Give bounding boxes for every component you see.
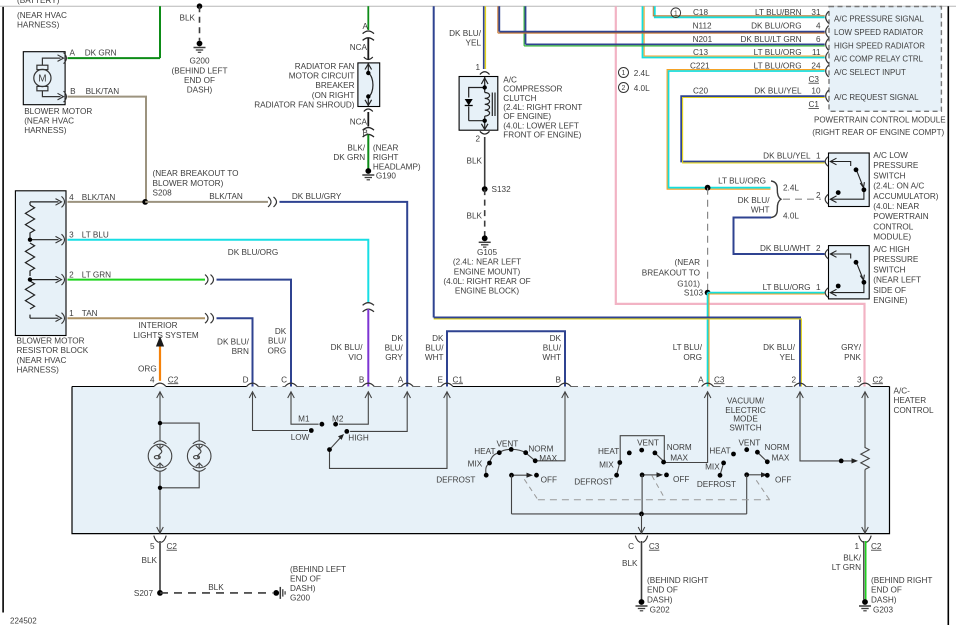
svg-text:SWITCH: SWITCH [873,265,905,274]
svg-text:WHT: WHT [542,353,561,362]
mode switch 3 OFF arm [747,474,763,476]
svg-text:SWITCH: SWITCH [873,171,905,180]
svg-text:G203: G203 [873,605,893,614]
svg-text:VENT: VENT [637,439,659,448]
svg-text:A/C: A/C [503,75,517,84]
svg-text:D: D [243,375,249,384]
svg-text:DK BLU/LT GRN: DK BLU/LT GRN [740,35,801,44]
svg-text:LIGHTS SYSTEM: LIGHTS SYSTEM [133,331,199,340]
wire DK BLU/BRN to heater pin D [217,318,253,386]
mode switch 2 OFF arm [642,474,658,476]
svg-text:CLUTCH: CLUTCH [503,94,536,103]
wire BLK/TAN pin4 to S208 [68,201,146,203]
wire LT GRN pin2 to connector [68,279,206,281]
splice dot at top of G200 dashed wire [197,3,203,9]
svg-text:C3: C3 [714,375,725,384]
svg-text:BLOWER MOTOR: BLOWER MOTOR [24,107,92,116]
svg-text:10: 10 [811,87,821,96]
wire DK BLU/YEL vertical to compressor clutch pin 1 [483,6,485,69]
svg-text:LT BLU/ORG: LT BLU/ORG [754,48,802,57]
svg-text:DASH): DASH) [187,86,213,95]
svg-text:DK GRN: DK GRN [85,49,117,58]
heater box top edge dashed segments [259,386,860,388]
svg-text:OFF: OFF [775,475,791,484]
wire DK BLU/GRY to heater pin A [280,202,408,387]
HP switch connector arc pin 2 [825,249,828,259]
HP switch connector arc pin 1 [825,288,828,298]
wire N201 DK BLU/LT GRN vertical (cut at top) [523,6,525,46]
svg-text:A: A [698,375,704,384]
svg-text:WHT: WHT [751,206,770,215]
resistor chain junction dots [28,238,32,242]
left page border [2,7,4,613]
svg-text:NORM: NORM [765,443,790,452]
svg-text:NORM: NORM [667,443,692,452]
svg-text:C2: C2 [873,375,884,384]
wire BLK dashed S207 to G200 [160,592,273,594]
wire C13 LT BLU/ORG vertical (cut at top) [643,6,825,57]
svg-text:(NEAR: (NEAR [373,144,399,153]
splice S208 [142,199,148,205]
svg-text:2: 2 [816,244,821,253]
svg-text:DASH): DASH) [290,584,316,593]
svg-text:DEFROST: DEFROST [436,475,475,484]
svg-text:DK BLU/: DK BLU/ [331,343,364,352]
svg-text:LT BLU/BRN: LT BLU/BRN [755,8,802,17]
svg-text:BRN: BRN [232,347,249,356]
circuit breaker element [365,64,373,107]
svg-text:3: 3 [69,231,74,240]
svg-text:VACUUM/: VACUUM/ [727,396,765,405]
svg-text:C20: C20 [693,87,708,96]
ground G202 [636,599,648,611]
mode switch 3 contacts [720,452,766,475]
svg-text:ACCUMULATOR): ACCUMULATOR) [873,192,938,201]
resistor chain (3 resistors) [25,202,58,318]
inline connector BLK/TAN to DK BLU/GRY [268,197,277,207]
svg-text:C1: C1 [453,375,464,384]
svg-text:2.4L: 2.4L [634,69,650,78]
svg-text:VENT: VENT [496,439,518,448]
junction dot on LT BLU/ORG at x=707.6 [705,185,711,191]
svg-text:END OF: END OF [290,574,321,583]
top crop rule [0,5,956,7]
svg-text:2: 2 [69,271,74,280]
wire LT BLU/ORG from S103 to HP switch pin 1 [708,292,825,294]
svg-text:RIGHT: RIGHT [373,153,398,162]
svg-text:1: 1 [674,10,678,17]
svg-text:DK BLU/WHT: DK BLU/WHT [760,244,811,253]
svg-text:C3: C3 [809,75,820,84]
clutch internal circuit (diode + coil) [469,77,495,130]
wire BLK/TAN S208 to connector [145,201,268,203]
svg-text:A/C HIGH: A/C HIGH [873,245,909,254]
svg-text:HIGH SPEED RADIATOR: HIGH SPEED RADIATOR [834,41,925,50]
svg-text:BLK: BLK [180,13,196,22]
wire BLK from pin C to G202 [641,541,643,600]
svg-text:POWERTRAIN: POWERTRAIN [873,212,928,221]
note RADIATOR FAN MOTOR CIRCUIT BREAKER (ON RIGHT RADIATOR FAN SHROUD) [254,62,355,109]
svg-text:END OF: END OF [647,586,678,595]
svg-text:BLU/: BLU/ [543,344,562,353]
svg-text:(BEHIND RIGHT: (BEHIND RIGHT [871,576,932,585]
svg-text:C2: C2 [168,375,179,384]
svg-text:(NEAR BREAKOUT TO: (NEAR BREAKOUT TO [153,169,239,178]
svg-text:TAN: TAN [82,309,98,318]
svg-text:BLU/: BLU/ [385,344,404,353]
svg-text:DASH): DASH) [871,595,897,604]
svg-text:OF ENGINE): OF ENGINE) [503,112,551,121]
svg-text:(BEHIND RIGHT: (BEHIND RIGHT [647,576,708,585]
svg-text:C2: C2 [167,542,178,551]
circled 1 marker at C18 row [671,8,681,18]
mode switch 1 linkage dashed [524,479,538,499]
svg-text:G200: G200 [290,594,310,603]
svg-text:1: 1 [816,152,821,161]
ground G190 [362,168,374,180]
connector arcs at A [363,31,374,40]
brace 2.4L [771,181,781,218]
ground G200 (bottom, sideways) [273,587,285,599]
svg-text:LT BLU/ORG: LT BLU/ORG [754,62,802,71]
wire C18 LT BLU/BRN vertical (cut at top) [655,6,825,17]
svg-text:DK: DK [550,334,562,343]
svg-text:INTERIOR: INTERIOR [138,321,177,330]
svg-text:G105: G105 [477,248,497,257]
svg-text:DK: DK [432,334,444,343]
svg-text:DK BLU/ORG: DK BLU/ORG [228,248,279,257]
svg-text:C3: C3 [649,542,660,551]
resistor block pin arrows and connector arcs [56,196,65,323]
svg-text:5: 5 [150,542,155,551]
svg-text:1: 1 [69,309,74,318]
svg-text:C: C [628,542,634,551]
wire BLK/TAN from pin B [68,97,147,202]
svg-text:3: 3 [857,375,862,384]
wire BLK/LT GRN from pin 1 to G203 [863,541,865,600]
svg-text:HEAT: HEAT [709,446,730,455]
heater box bottom pin connector bumps [154,536,871,543]
heater box top edge solid segments [72,386,890,388]
svg-text:(4.0L: NEAR: (4.0L: NEAR [873,202,919,211]
svg-text:PNK: PNK [844,353,861,362]
svg-text:LT BLU/: LT BLU/ [673,343,703,352]
svg-text:G200: G200 [189,57,209,66]
PCM connector arcs [826,11,829,102]
clutch diode symbol [465,99,473,106]
wire BLK/DK GRN to G190 [367,135,369,169]
svg-text:RADIATOR FAN SHROUD): RADIATOR FAN SHROUD) [254,100,355,109]
blower motor pin B arrow [58,93,64,100]
svg-text:MIX: MIX [599,461,614,470]
svg-text:BLOWER MOTOR: BLOWER MOTOR [17,337,85,346]
mode switch 2 feed from pin A C3 [617,392,708,475]
svg-text:NCA: NCA [350,118,368,127]
A/C low pressure switch box [829,153,870,207]
svg-text:BREAKOUT TO: BREAKOUT TO [642,269,700,278]
ground G200 (top) [194,41,206,53]
lamp 1 [148,441,172,471]
svg-text:DK BLU/: DK BLU/ [217,337,250,346]
svg-text:LOW SPEED RADIATOR: LOW SPEED RADIATOR [834,28,923,37]
mode switch common bus to pin C [512,513,747,515]
wire BLK from clutch pin 2 [484,137,486,189]
svg-text:HARNESS): HARNESS) [17,21,60,30]
svg-text:2: 2 [791,375,796,384]
mode switch 1 feed from pin B C3 [486,392,565,475]
ground G203 [859,599,871,611]
svg-text:BLK: BLK [467,156,483,165]
A/C high pressure switch box [829,246,870,299]
svg-text:ENGINE): ENGINE) [873,296,907,305]
blower motor pin B connector arc [64,91,67,102]
svg-text:MIX: MIX [705,463,720,472]
svg-text:GRY/: GRY/ [841,343,862,352]
svg-text:B: B [70,87,76,96]
LP switch internal contacts [830,158,864,202]
mode switch 2 contact dots [614,473,619,478]
svg-text:S207: S207 [134,589,154,598]
blower switch wiring [253,392,448,469]
svg-text:S208: S208 [153,188,173,197]
svg-text:A: A [70,49,76,58]
svg-text:M: M [38,74,46,85]
svg-text:4: 4 [69,193,74,202]
svg-text:BLK/TAN: BLK/TAN [209,192,243,201]
svg-text:A/C REQUEST SIGNAL: A/C REQUEST SIGNAL [834,93,919,102]
inline connector LT GRN to DK BLU/ORG [205,275,214,285]
svg-text:MIX: MIX [468,460,483,469]
wire LT BLU/ORG from S103 down to heater control pin A C3 [707,293,709,387]
wire N112 DK BLU/ORG vertical (cut at top) [497,6,499,33]
wire ORG to interior lights (arrow up) [159,344,161,381]
svg-text:END OF: END OF [184,76,215,85]
svg-text:A/C SELECT INPUT: A/C SELECT INPUT [834,68,906,77]
svg-text:(2.4L: RIGHT FRONT: (2.4L: RIGHT FRONT [503,103,582,112]
blower speed rheostat resistor [861,392,869,533]
mode switch 3 linkage dashed [756,480,769,499]
svg-text:2.4L: 2.4L [783,184,799,193]
svg-text:(NEAR: (NEAR [675,258,701,267]
svg-text:DK BLU/YEL: DK BLU/YEL [763,152,811,161]
connector arcs at breaker top [364,57,373,60]
wire GRY/PNK vertical (cut at top) [616,6,865,386]
svg-text:BLK/: BLK/ [347,144,365,153]
svg-text:(4.0L: LOWER LEFT: (4.0L: LOWER LEFT [503,121,579,130]
svg-text:MAX: MAX [772,454,790,463]
svg-text:N201: N201 [693,35,713,44]
svg-text:LT GRN: LT GRN [82,271,111,280]
heater box top pin connector bumps [154,383,871,386]
svg-text:B: B [359,375,365,384]
internal arrows at top pins [157,392,869,398]
svg-text:2: 2 [622,85,626,92]
svg-text:HEADLAMP): HEADLAMP) [373,163,421,172]
svg-text:1: 1 [854,542,859,551]
wire C20 DK BLU/YEL from PCM pin 10 [681,96,825,161]
svg-text:(2.4L: ON A/C: (2.4L: ON A/C [873,182,924,191]
svg-text:(RIGHT REAR OF ENGINE COMPT): (RIGHT REAR OF ENGINE COMPT) [812,128,944,137]
svg-text:LT GRN: LT GRN [832,563,861,572]
svg-text:(NEAR HVAC: (NEAR HVAC [24,117,74,126]
wire N112 DK BLU/ORG into PCM pin 4 [499,31,824,33]
wire BLK dashed to G105 [484,189,486,235]
svg-text:(ON RIGHT: (ON RIGHT [312,91,355,100]
svg-text:4.0L: 4.0L [783,212,799,221]
blower speed rheostat feed from pin 2 [800,392,853,461]
dashed stub to LP switch pin 2 [783,198,821,200]
wire DK BLU/YEL long run to heater pin 2 [434,318,800,387]
svg-text:(4.0L: RIGHT REAR OF: (4.0L: RIGHT REAR OF [443,277,530,286]
svg-text:HEAT: HEAT [598,447,619,456]
svg-text:E: E [438,375,444,384]
LP switch connector arc pin 2 [825,194,828,204]
mode switch 1 OFF arm [512,474,529,476]
svg-text:BLU/: BLU/ [425,344,444,353]
blower motor M symbol [34,58,61,97]
svg-text:SIDE OF: SIDE OF [873,286,906,295]
wire DK BLU/WHT bridge from heater pin E to pin B C3 [447,331,565,386]
svg-text:RESISTOR BLOCK: RESISTOR BLOCK [17,346,89,355]
svg-text:6: 6 [816,35,821,44]
svg-text:C18: C18 [693,8,708,17]
svg-text:BLK: BLK [208,583,224,592]
connector arc clutch pin 1 [480,72,490,75]
blower motor pin A connector arc [64,53,67,64]
connector arcs at B [363,128,374,137]
wire N201 DK BLU/LT GRN into PCM pin 6 [526,43,825,45]
blower switch contact dots [309,428,314,433]
wire DK GRN from pin A [68,57,161,59]
svg-text:DK BLU/GRY: DK BLU/GRY [292,192,342,201]
svg-text:M2: M2 [332,415,344,424]
svg-text:BLK/: BLK/ [843,553,861,562]
svg-text:RADIATOR FAN: RADIATOR FAN [295,62,355,71]
svg-text:(BEHIND LEFT: (BEHIND LEFT [290,565,346,574]
circuit breaker box [358,63,380,107]
svg-text:DK: DK [275,327,287,336]
svg-text:LT BLU: LT BLU [82,231,109,240]
svg-text:G190: G190 [376,172,396,181]
svg-text:S132: S132 [492,185,512,194]
svg-text:FRONT OF ENGINE): FRONT OF ENGINE) [503,131,581,140]
dashed linkage bus [538,499,770,501]
wire DK BLU/VIO down to heater pin B [367,309,369,387]
lamp junction dots [158,421,162,425]
svg-text:ORG: ORG [138,364,157,373]
svg-text:A/C PRESSURE SIGNAL: A/C PRESSURE SIGNAL [834,14,925,23]
svg-text:24: 24 [811,62,821,71]
svg-text:(NEAR LEFT: (NEAR LEFT [873,276,921,285]
svg-text:4.0L: 4.0L [634,84,650,93]
wire DK BLU/ORG to heater pin C [217,280,292,387]
clutch junction dots [483,85,487,89]
svg-text:BREAKER: BREAKER [315,81,354,90]
svg-text:1: 1 [622,70,626,77]
svg-text:A: A [363,22,369,31]
A/C-heater control box [72,387,890,534]
svg-text:COMPRESSOR: COMPRESSOR [503,85,562,94]
svg-text:MODE: MODE [733,415,758,424]
svg-text:BLK: BLK [622,559,638,568]
svg-text:MAX: MAX [539,454,557,463]
svg-text:DASH): DASH) [647,595,673,604]
svg-text:2: 2 [816,191,821,200]
splice S132 [482,186,488,192]
svg-text:GRY: GRY [385,353,403,362]
svg-text:C: C [281,375,287,384]
svg-text:WHT: WHT [425,353,444,362]
svg-text:C221: C221 [690,62,710,71]
wire BLK from pin 5 to S207 [159,541,161,593]
wire LT BLU pin3 to connector above pin B [68,240,369,302]
svg-text:ENGINE MOUNT): ENGINE MOUNT) [454,267,521,276]
svg-text:DK BLU/YEL: DK BLU/YEL [754,87,802,96]
svg-text:C13: C13 [693,48,708,57]
svg-text:C2: C2 [871,542,882,551]
svg-text:N112: N112 [693,22,712,31]
svg-text:DEFROST: DEFROST [574,478,613,487]
right page border [947,6,949,625]
inline connector LT BLU to DK BLU/VIO [363,303,374,312]
svg-text:(NEAR HVAC: (NEAR HVAC [17,11,67,20]
svg-text:A: A [398,375,404,384]
svg-text:DK BLU/: DK BLU/ [763,343,796,352]
lamp 2 [187,441,211,471]
connector arc clutch pin 2 [480,131,490,134]
wire C221 LT BLU/ORG from PCM pin 24 [669,71,825,188]
svg-text:LT BLU/ORG: LT BLU/ORG [718,177,766,186]
svg-text:224502: 224502 [10,617,37,625]
svg-text:DK: DK [391,334,403,343]
svg-text:HEAT: HEAT [474,447,495,456]
svg-text:4: 4 [816,22,821,31]
svg-text:HARNESS): HARNESS) [17,365,60,374]
svg-text:2: 2 [475,134,480,143]
HP switch internal contacts [830,251,864,296]
svg-text:BLOWER MOTOR): BLOWER MOTOR) [153,179,224,188]
LP switch connector arc pin 1 [825,157,828,167]
internal arrows at bottom pins [157,527,869,533]
svg-text:VIO: VIO [348,353,362,362]
wire DK BLU/WHT 4.0L branch to HP switch pin 2 [734,218,825,255]
svg-text:ENGINE BLOCK): ENGINE BLOCK) [455,287,519,296]
svg-text:CONTROL: CONTROL [873,222,913,231]
svg-text:G202: G202 [650,605,670,614]
svg-text:BLK: BLK [467,212,483,221]
legend circled 1 = 2.4L [619,68,651,79]
wire DK GRN above breaker (cut at top) [367,6,369,30]
svg-text:S103: S103 [684,289,704,298]
svg-text:MOTOR CIRCUIT: MOTOR CIRCUIT [289,72,355,81]
wire NCA upper [367,38,369,59]
svg-text:4: 4 [150,375,155,384]
mode switch 2 linkage dashed [652,476,666,500]
svg-text:MAX: MAX [670,454,688,463]
svg-text:1: 1 [816,283,821,292]
svg-text:NCA: NCA [350,43,368,52]
svg-text:OFF: OFF [541,475,557,484]
svg-text:NORM: NORM [528,444,553,453]
wire NCA lower [367,112,369,127]
svg-text:LT BLU/ORG: LT BLU/ORG [763,283,811,292]
svg-text:M1: M1 [298,415,310,424]
powertrain control module box [829,7,941,112]
inline connector TAN to DK BLU/BRN [205,313,214,323]
legend circled 2 = 4.0L [619,83,651,94]
blower motor pin A arrow [58,55,64,62]
svg-text:ORG: ORG [683,353,702,362]
